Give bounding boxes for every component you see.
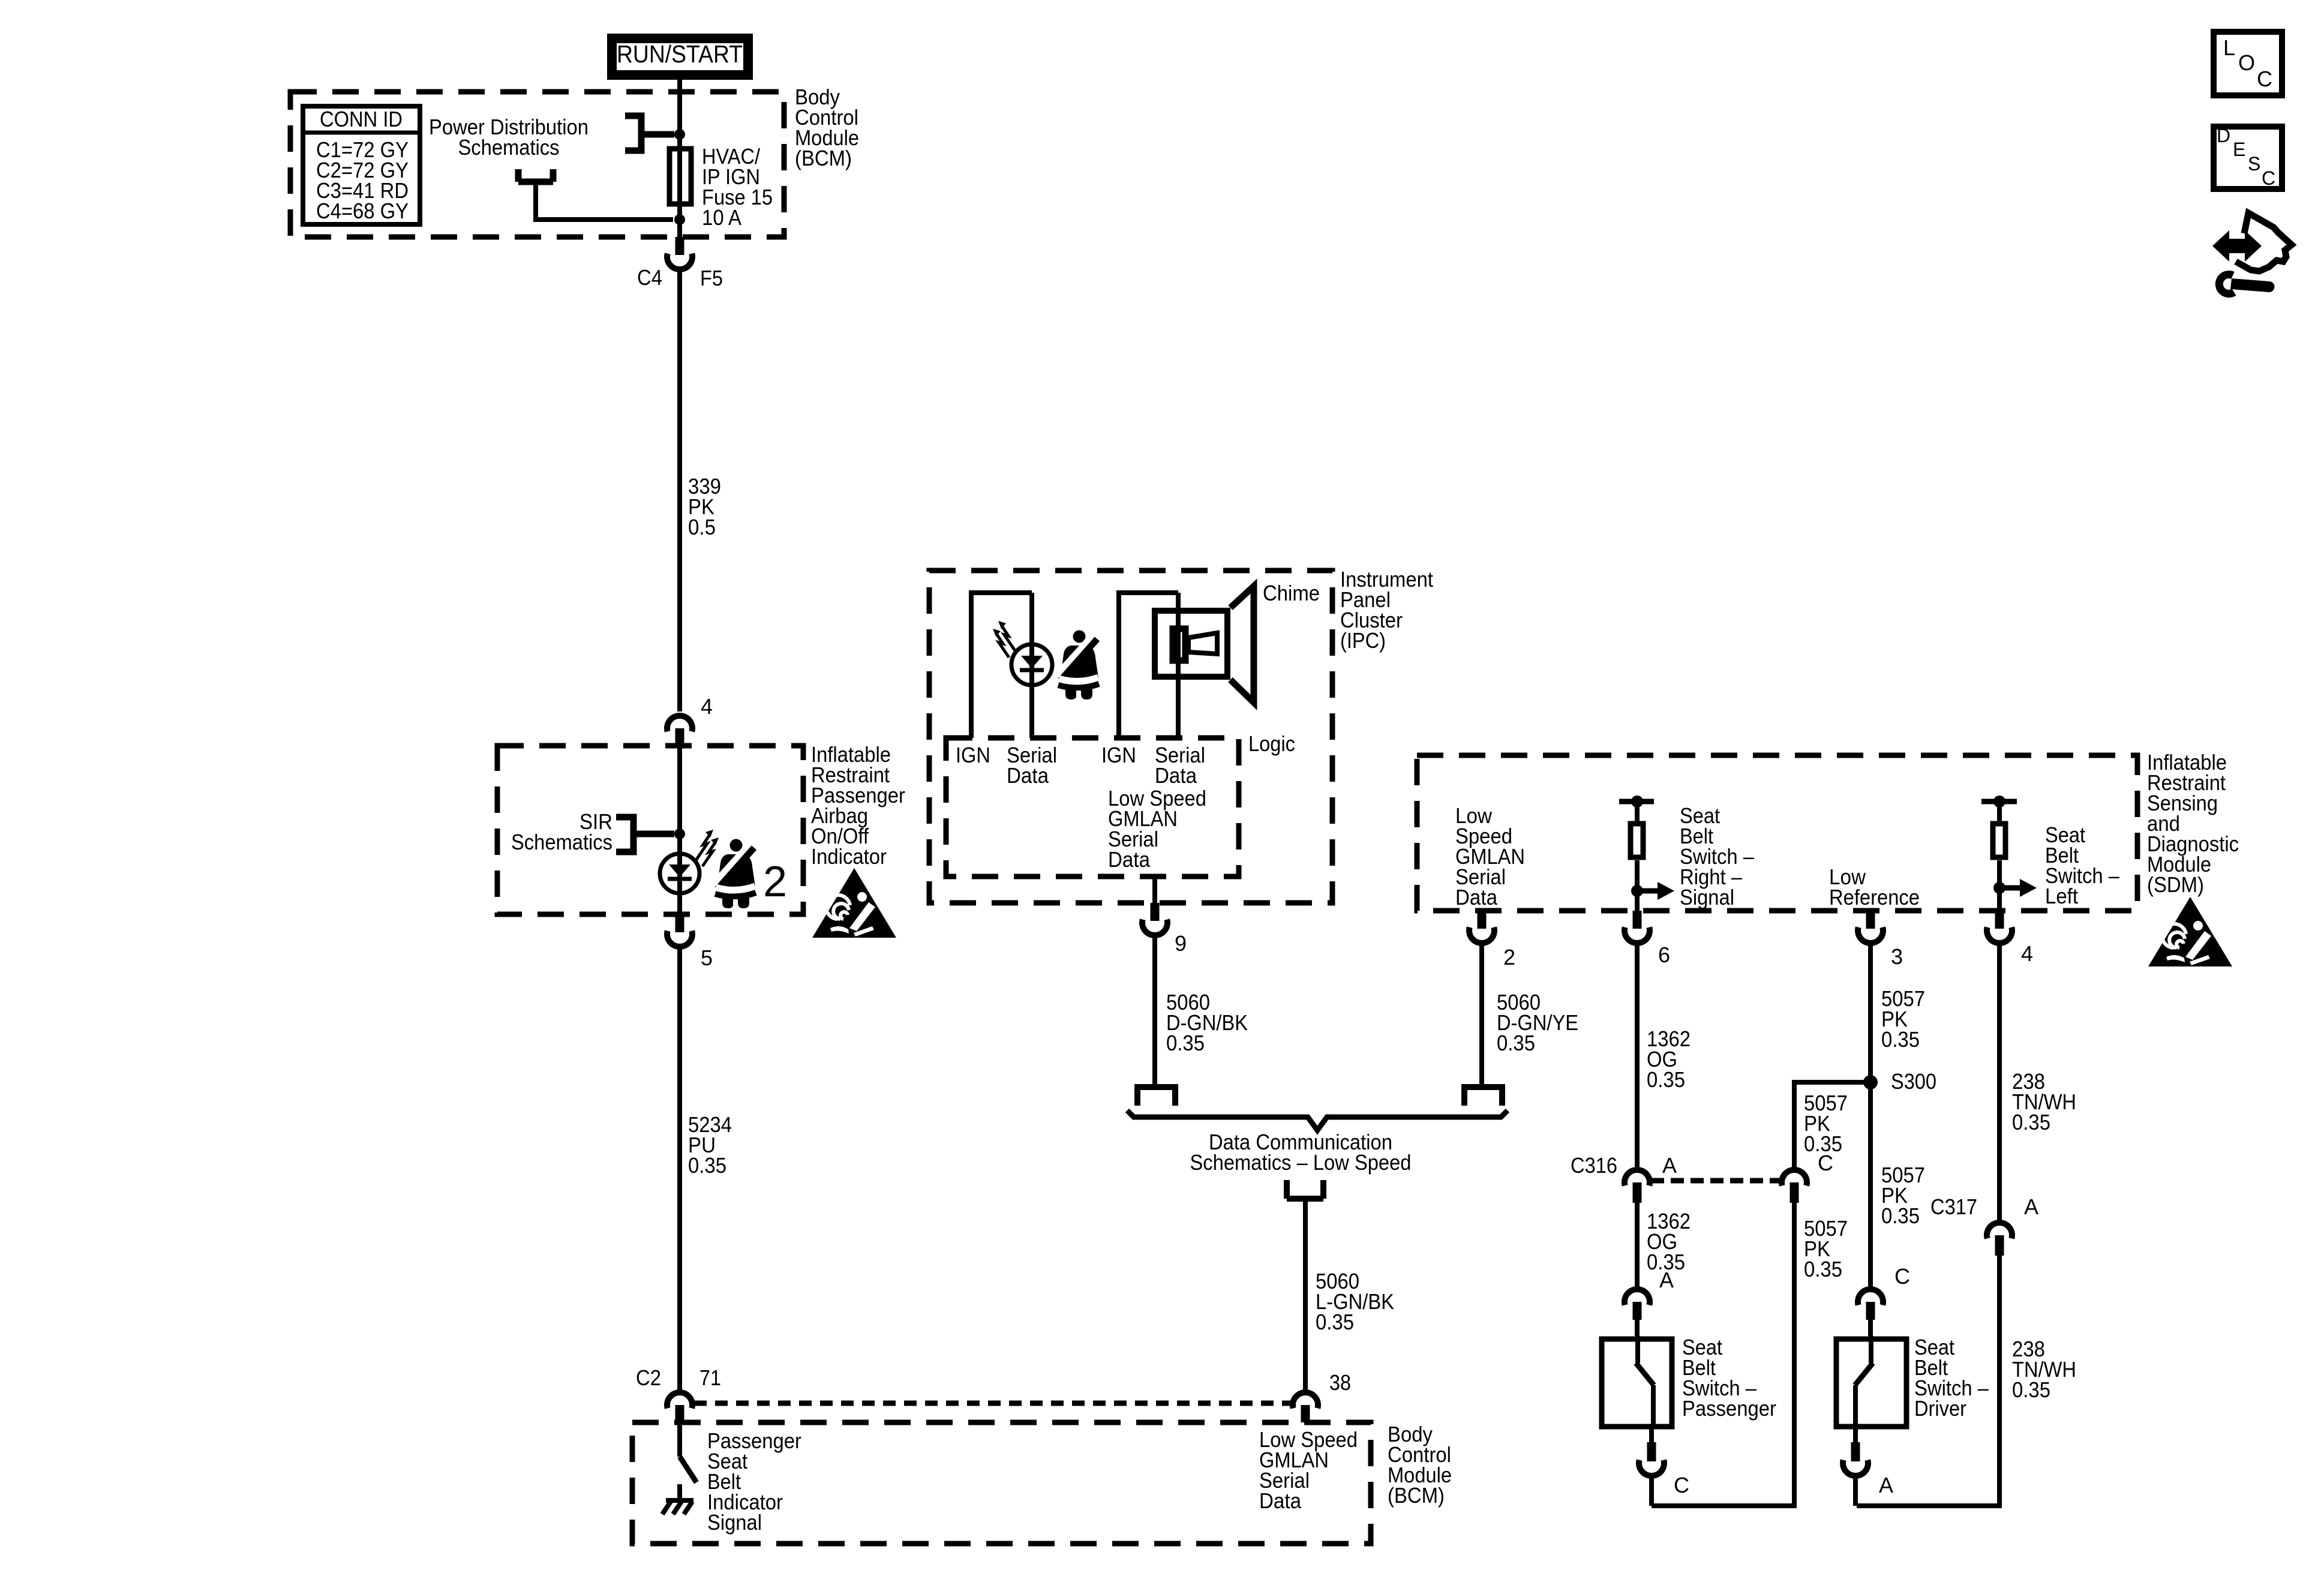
svg-text:F5: F5	[700, 266, 723, 290]
svg-text:9: 9	[1175, 931, 1187, 956]
svg-text:Data: Data	[1455, 885, 1498, 909]
Inflatable Restraint Sensing and Diagnostic Module dashed box	[1417, 755, 2137, 911]
svg-text:S: S	[2248, 153, 2260, 175]
svg-text:A: A	[1659, 1268, 1674, 1292]
label terminal C (branch upper)	[1818, 1151, 1833, 1175]
label Logic	[1248, 731, 1295, 756]
wire RUN/START to fuse	[677, 80, 682, 146]
wire label 5057 PK 0.35 (pin3 lower)	[1881, 1163, 1925, 1228]
svg-text:Passenger: Passenger	[1682, 1396, 1776, 1421]
wire driver switch return	[1853, 1477, 1858, 1506]
wire label 5060 D-GN/BK 0.35	[1166, 990, 1248, 1055]
label F5	[700, 266, 723, 290]
junction node on ignition wire	[674, 129, 685, 140]
svg-text:L: L	[2223, 35, 2235, 60]
label Seat Belt Switch - Passenger	[1682, 1335, 1776, 1421]
label pin 38	[1329, 1370, 1351, 1395]
label C4	[637, 265, 662, 290]
wire label 339 PK 0.5	[688, 474, 721, 539]
wire label 238 TN/WH 0.35 lower	[2012, 1337, 2076, 1402]
serial data wire through IPC LED	[1029, 593, 1034, 738]
serial data wire through chime	[1176, 593, 1181, 738]
svg-text:0.35: 0.35	[1804, 1257, 1842, 1281]
component locator outline icon	[2236, 213, 2292, 271]
svg-text:0.35: 0.35	[1166, 1031, 1205, 1055]
label pin 9	[1175, 931, 1187, 956]
svg-text:(BCM): (BCM)	[1388, 1483, 1445, 1508]
wire 339 PK 0.5	[677, 271, 682, 712]
svg-text:Logic: Logic	[1248, 731, 1295, 756]
label S300	[1891, 1069, 1936, 1094]
label SIR Schematics	[511, 809, 612, 854]
label Low Speed GMLAN Serial Data (IPC logic)	[1108, 786, 1206, 872]
connector C316 terminal A	[1625, 1170, 1650, 1203]
connector pin 4 of SDM	[1987, 911, 2012, 943]
passenger seat belt indicator switch	[680, 1422, 696, 1482]
wire 5060 L-GN/BK 0.35	[1303, 1202, 1308, 1391]
LOC icon box	[2214, 32, 2282, 95]
conn id rows	[316, 137, 409, 223]
connector C317 terminal C	[1858, 1289, 1883, 1336]
label Chime	[1263, 581, 1320, 605]
dashed connector line C316	[1651, 1178, 1780, 1184]
svg-text:Reference: Reference	[1829, 885, 1920, 909]
splice S300	[1863, 1075, 1878, 1089]
label Low Speed GMLAN Serial Data (SDM)	[1455, 803, 1525, 909]
svg-text:Schematics – Low Speed: Schematics – Low Speed	[1190, 1150, 1412, 1175]
svg-text:IGN: IGN	[956, 743, 990, 767]
label pin 4	[2021, 941, 2033, 966]
wire label 238 TN/WH 0.35	[2012, 1069, 2076, 1134]
svg-text:Chime: Chime	[1263, 581, 1320, 605]
label pin 5	[701, 945, 713, 970]
fuse HVAC/IP IGN Fuse 15 10A	[669, 149, 691, 204]
connector C317 terminal A (right)	[1987, 1223, 2012, 1256]
LED cathode bar	[668, 877, 692, 881]
svg-text:Signal: Signal	[707, 1510, 762, 1535]
wire label 5057 PK 0.35 C (branch)	[1804, 1091, 1848, 1156]
svg-text:S300: S300	[1891, 1069, 1936, 1094]
reference bracket SIR schematics	[616, 817, 674, 852]
wire 238 TN/WH to driver switch loop	[1857, 1256, 1999, 1506]
svg-text:71: 71	[699, 1365, 721, 1390]
chime flare	[1230, 586, 1254, 703]
svg-text:0.35: 0.35	[1647, 1067, 1685, 1092]
svg-text:Data: Data	[1108, 847, 1151, 872]
wire 5234 PU 0.35	[677, 948, 682, 1391]
label 71	[699, 1365, 721, 1390]
connector pin 5 of SIR indicator	[667, 914, 692, 947]
svg-text:D: D	[2217, 125, 2230, 146]
wire label 5057 PK 0.35 (pin3)	[1881, 986, 1925, 1052]
chime driver	[1173, 629, 1185, 661]
svg-text:C: C	[2257, 67, 2272, 91]
data communication brace	[1127, 1110, 1508, 1130]
label terminal A (C317 right)	[2024, 1194, 2038, 1219]
svg-text:Left: Left	[2045, 884, 2078, 908]
svg-text:A: A	[1879, 1473, 1893, 1497]
reference cup below Power Distribution	[518, 169, 553, 182]
label C317	[1930, 1194, 1977, 1219]
label terminal C (passenger lower)	[1674, 1473, 1689, 1497]
IPC LED lamp circle	[1011, 644, 1052, 685]
svg-text:RUN/START: RUN/START	[617, 40, 743, 68]
label IGN (left)	[956, 743, 990, 767]
label Seat Belt Switch - Right - Signal	[1680, 803, 1754, 909]
junction node at indicator feed	[674, 828, 685, 839]
fuse label	[702, 144, 773, 230]
label C2	[636, 1365, 661, 1390]
svg-text:Schematics: Schematics	[458, 135, 560, 160]
seat belt switch passenger box	[1602, 1339, 1672, 1427]
label 2 (telltale index)	[763, 858, 787, 906]
connector pin 3 of SDM	[1858, 911, 1883, 943]
wire label 5060 D-GN/YE 0.35	[1497, 990, 1578, 1055]
label Passenger Seat Belt Indicator Signal	[707, 1428, 801, 1535]
IPC LED cathode bar	[1020, 668, 1044, 673]
svg-text:4: 4	[2021, 941, 2033, 966]
label RUN/START	[617, 40, 743, 68]
seat belt switch right pull-up resistor	[1619, 795, 1674, 911]
label Body Control Module (BCM) bottom	[1388, 1422, 1452, 1508]
svg-text:(SDM): (SDM)	[2147, 872, 2204, 897]
svg-text:2: 2	[1503, 945, 1515, 969]
svg-text:5: 5	[701, 945, 713, 970]
svg-text:Signal: Signal	[1680, 885, 1734, 909]
svg-text:Indicator: Indicator	[811, 844, 887, 869]
label Low Reference	[1829, 864, 1920, 909]
Body Control Module bottom dashed box	[632, 1422, 1371, 1544]
wire fuse to BCM edge	[677, 146, 682, 237]
IGN wire to indicator	[971, 593, 1032, 738]
wire 5060 D-GN/YE 0.35	[1479, 944, 1484, 1087]
chassis ground inside BCM	[662, 1484, 693, 1514]
label Power Distribution Schematics	[429, 115, 588, 160]
terminal staple left	[1137, 1087, 1175, 1106]
CONN ID table	[301, 106, 422, 224]
svg-text:Schematics: Schematics	[511, 830, 612, 854]
svg-text:0.35: 0.35	[2012, 1377, 2050, 1402]
seat belt pictograph (indicator)	[714, 839, 756, 910]
chime horn	[1188, 633, 1217, 654]
label Data Communication Schematics - Low Speed	[1190, 1130, 1412, 1175]
label Low Speed GMLAN Serial Data (BCM)	[1259, 1427, 1358, 1513]
seat belt switch left pull-up resistor	[1981, 795, 2037, 911]
connector pin 9 of IPC	[1142, 903, 1167, 935]
Instrument Panel Cluster dashed box	[929, 571, 1332, 903]
svg-text:C: C	[2262, 167, 2275, 189]
airbag warning triangle (SDM)	[2148, 897, 2232, 966]
LED light rays	[696, 830, 719, 866]
label pin 2	[1503, 945, 1515, 969]
connector A below driver switch	[1843, 1429, 1868, 1476]
driver switch contacts	[1855, 1336, 1873, 1429]
svg-text:Driver: Driver	[1914, 1396, 1966, 1421]
label Seat Belt Switch - Driver	[1914, 1335, 1989, 1421]
seat belt pictograph (IPC)	[1058, 631, 1099, 701]
svg-text:C: C	[1894, 1264, 1910, 1289]
BCM dashed box	[290, 92, 784, 237]
svg-text:CONN ID: CONN ID	[320, 107, 403, 131]
label terminal A (C316)	[1662, 1153, 1677, 1178]
airbag warning triangle (indicator)	[812, 868, 896, 938]
label Serial Data (left)	[1007, 743, 1057, 788]
label pin 6	[1658, 942, 1670, 967]
connector C2 pin 71 of BCM	[667, 1392, 692, 1422]
connector pin 4 of SIR indicator	[667, 716, 692, 746]
svg-text:A: A	[1662, 1153, 1677, 1178]
seat belt switch driver box	[1836, 1339, 1906, 1427]
LED diode triangle	[669, 864, 690, 877]
label terminal C (C317)	[1894, 1264, 1910, 1289]
label C316	[1571, 1153, 1617, 1178]
label Seat Belt Switch - Left	[2045, 822, 2119, 908]
label CONN ID	[320, 107, 403, 131]
label Inflatable Restraint Passenger Airbag On/Off Indicator	[811, 742, 905, 869]
label Inflatable Restraint Sensing and Diagnostic Module (SDM)	[2147, 750, 2239, 897]
wire label 5060 L-GN/BK 0.35	[1316, 1269, 1394, 1334]
connector pin 38 of BCM	[1293, 1392, 1318, 1422]
wire reference cup to fuse output node	[536, 182, 673, 220]
connector C316 terminal C (middle)	[1782, 1170, 1807, 1203]
DESC icon box	[2214, 125, 2282, 189]
svg-text:0.35: 0.35	[2012, 1110, 2050, 1134]
label Instrument Panel Cluster (IPC)	[1340, 567, 1433, 653]
svg-text:Data: Data	[1259, 1488, 1302, 1513]
svg-text:10 A: 10 A	[702, 205, 741, 230]
junction node below fuse	[674, 214, 685, 225]
label Serial Data (right)	[1155, 743, 1205, 788]
Inflatable Restraint Passenger Airbag On/Off Indicator dashed box	[497, 746, 803, 914]
svg-text:C2: C2	[636, 1365, 661, 1390]
svg-text:0.35: 0.35	[1881, 1203, 1920, 1228]
svg-text:38: 38	[1329, 1370, 1351, 1395]
IGN wire to chime	[1119, 593, 1178, 738]
wire 5057 PK 0.35 to driver switch loop	[1652, 1203, 1794, 1506]
wire passenger switch return	[1649, 1477, 1654, 1506]
wire label 5057 PK 0.35 (middle lower)	[1804, 1216, 1848, 1281]
connector C below passenger switch	[1639, 1429, 1664, 1476]
double arrow icon	[2212, 230, 2262, 262]
terminal staple right	[1464, 1087, 1502, 1106]
IPC LED light rays	[993, 621, 1016, 658]
connector A above passenger switch	[1625, 1289, 1650, 1336]
power source box RUN/START	[607, 34, 753, 80]
svg-text:A: A	[2024, 1194, 2038, 1219]
svg-text:0.5: 0.5	[688, 515, 716, 539]
connector pin 2 of SDM	[1469, 911, 1494, 943]
wire 5057 PK 0.35 from pin 3	[1868, 944, 1873, 1289]
svg-text:(BCM): (BCM)	[795, 146, 852, 170]
svg-text:C: C	[1818, 1151, 1833, 1175]
svg-text:C4=68 GY: C4=68 GY	[316, 199, 409, 223]
svg-text:Data: Data	[1007, 763, 1049, 788]
svg-text:IGN: IGN	[1101, 743, 1136, 767]
connector C4 pin F5	[667, 237, 692, 269]
svg-text:0.35: 0.35	[1881, 1027, 1920, 1052]
wire data communication to pin 38	[1303, 1199, 1308, 1206]
wire logic to pin 9	[1152, 876, 1157, 903]
wire 238 TN/WH 0.35 upper	[1997, 944, 2002, 1221]
reference bracket to power distribution	[625, 116, 674, 151]
wire S300 branch to connector C	[1794, 1082, 1870, 1169]
label IGN (right)	[1101, 743, 1136, 767]
label pin 3	[1891, 944, 1903, 969]
wire 1362 OG 0.35 upper	[1635, 944, 1640, 1169]
wrench icon	[2219, 275, 2274, 294]
svg-text:C4: C4	[637, 265, 662, 290]
svg-text:0.35: 0.35	[688, 1153, 726, 1178]
wire 5060 D-GN/BK 0.35	[1152, 936, 1157, 1087]
label terminal A (passenger switch)	[1659, 1268, 1674, 1292]
dotted internal link wire C2-71 to pin 38	[694, 1401, 1291, 1406]
svg-text:(IPC): (IPC)	[1340, 628, 1386, 653]
wire label 5234 PU 0.35	[688, 1112, 732, 1178]
svg-text:C317: C317	[1930, 1194, 1977, 1219]
wire through indicator LED	[677, 746, 682, 914]
passenger switch contacts	[1636, 1336, 1654, 1429]
svg-text:O: O	[2238, 50, 2255, 75]
wire 1362 OG 0.35 lower	[1635, 1203, 1640, 1289]
svg-text:6: 6	[1658, 942, 1670, 967]
svg-text:C: C	[1674, 1473, 1689, 1497]
reference cup below data communication label	[1287, 1180, 1323, 1199]
connector pin 6 of SDM	[1625, 911, 1650, 943]
wire label 1362 OG 0.35	[1647, 1026, 1691, 1092]
chime speaker body	[1155, 611, 1227, 677]
svg-text:0.35: 0.35	[1316, 1310, 1354, 1334]
label pin 4	[701, 694, 713, 719]
LED indicator lamp circle	[660, 854, 699, 893]
IPC logic dashed box	[946, 738, 1239, 876]
label terminal A (driver lower)	[1879, 1473, 1893, 1497]
label Body Control Module (BCM)	[795, 85, 859, 170]
wire label 1362 OG 0.35 A (lower)	[1647, 1209, 1691, 1274]
svg-text:4: 4	[701, 694, 713, 719]
svg-text:0.35: 0.35	[1497, 1031, 1535, 1055]
svg-text:E: E	[2233, 139, 2245, 160]
svg-text:3: 3	[1891, 944, 1903, 969]
svg-text:Data: Data	[1155, 763, 1197, 788]
svg-text:2: 2	[763, 858, 787, 906]
svg-text:C316: C316	[1571, 1153, 1617, 1178]
IPC LED diode triangle	[1021, 656, 1043, 668]
